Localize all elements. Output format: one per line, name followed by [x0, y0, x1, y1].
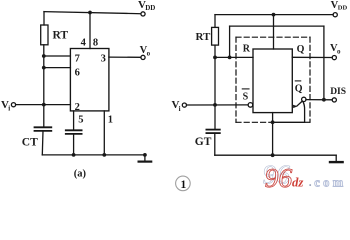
svg-text:DD: DD	[145, 4, 155, 12]
label V_DD (right)	[331, 0, 348, 12]
svg-text:1: 1	[181, 179, 187, 191]
svg-text:RT: RT	[196, 31, 212, 43]
svg-text:(a): (a)	[74, 168, 87, 179]
svg-text:DD: DD	[338, 5, 348, 12]
wire S-bar input	[187, 104, 249, 106]
svg-text:5: 5	[78, 114, 83, 125]
label V_DD (left)	[138, 0, 155, 12]
wire RT top lead	[43, 12, 45, 25]
wire left rail below RT	[43, 45, 45, 128]
wire switch hook to ground drop	[273, 101, 305, 122]
svg-text:i: i	[179, 105, 181, 113]
label V_i (left)	[1, 99, 10, 113]
node VDD drop junction	[272, 13, 276, 17]
svg-text:i: i	[8, 105, 10, 113]
wire VDD drop to box	[273, 15, 275, 49]
dashed 555 package boundary	[236, 37, 310, 122]
wire pin 6	[44, 67, 71, 69]
node pin1 to rail	[102, 153, 106, 157]
wire DIS	[306, 99, 332, 101]
terminal Vo (left)	[141, 55, 145, 59]
svg-text:DIS: DIS	[330, 87, 346, 97]
capacitor pin5 bypass	[66, 129, 82, 131]
IC U2 latch box (right)	[253, 49, 292, 113]
node feedback junction R	[228, 56, 232, 60]
wire CT bottom lead	[41, 131, 44, 155]
wire feedback right drop	[323, 26, 325, 100]
svg-text:4: 4	[81, 38, 87, 49]
node pin7 junction	[42, 54, 46, 58]
svg-text:6: 6	[75, 68, 80, 79]
node ground junction (left)	[143, 153, 147, 157]
node figure number circle 1	[176, 176, 191, 191]
wire bottom rail (right)	[215, 154, 336, 156]
node Vi2 junction	[213, 103, 217, 107]
svg-text:2: 2	[75, 102, 80, 113]
watermark 96dz.com	[263, 159, 347, 193]
wire R input	[215, 56, 253, 58]
node R branch junction	[213, 56, 217, 60]
svg-text:o: o	[147, 49, 151, 57]
terminal DIS	[332, 98, 336, 102]
wire GT bottom lead	[214, 133, 216, 155]
transistor switch blade	[297, 101, 302, 106]
node DIS feedback junction	[322, 98, 326, 102]
svg-text:o: o	[337, 47, 341, 55]
terminal VDD (right)	[333, 13, 337, 17]
svg-text:S: S	[243, 91, 249, 102]
svg-text:Q: Q	[295, 83, 303, 94]
label V_o (right)	[330, 43, 341, 56]
terminal Vo (right)	[332, 56, 336, 60]
label V_i (right)	[172, 99, 181, 113]
wire VDD rail (left circuit)	[44, 12, 141, 14]
resistor RT (left)	[41, 25, 48, 45]
capacitor GT (right)	[206, 129, 219, 131]
wire pin 2 input	[16, 104, 71, 106]
node S-bar inversion bubble	[248, 103, 253, 108]
wire pin 3 output	[109, 56, 141, 58]
node switch-ground junction	[271, 120, 275, 124]
wire box bottom to rail	[272, 113, 274, 156]
svg-text:96: 96	[265, 162, 293, 193]
svg-text:7: 7	[75, 54, 80, 65]
wire pin 1 lead	[103, 111, 105, 155]
terminal Vi (right)	[182, 103, 186, 107]
resistor RT (right)	[212, 27, 219, 45]
svg-text:Q: Q	[297, 44, 305, 55]
svg-text:GT: GT	[195, 136, 212, 148]
svg-text:CT: CT	[22, 137, 38, 149]
ground (left)	[144, 155, 146, 161]
wire feedback riser left	[229, 26, 231, 57]
capacitor CT (left)	[35, 126, 52, 128]
terminal Vi (left)	[11, 103, 15, 107]
node pin6 junction	[42, 66, 46, 70]
wire pin5 cap bottom lead	[73, 134, 75, 155]
wire pin 7	[44, 55, 71, 57]
svg-text:RT: RT	[53, 30, 69, 42]
IC U1 555 timer box (left)	[70, 49, 109, 111]
node pin5 cap to rail	[72, 153, 76, 157]
node box-bottom rail junction	[271, 153, 275, 157]
wire Q output	[292, 56, 332, 58]
wire VDD rail (right circuit)	[215, 14, 333, 16]
wire bottom rail (left)	[42, 154, 145, 156]
svg-text:R: R	[243, 43, 251, 54]
svg-text:dz: dz	[292, 176, 303, 190]
ground (right)	[335, 155, 337, 161]
svg-text:.: .	[309, 177, 312, 189]
node trigger junction	[42, 103, 46, 107]
svg-text:com: com	[314, 175, 346, 189]
svg-text:1: 1	[108, 114, 113, 125]
terminal VDD (left)	[141, 12, 145, 16]
svg-text:3: 3	[101, 54, 106, 65]
wire feedback top	[230, 25, 324, 27]
svg-text:8: 8	[93, 38, 98, 49]
node junction pin4/8 drop	[88, 11, 92, 15]
wire right rail below RT2	[214, 45, 216, 129]
label V_o (left)	[140, 45, 151, 58]
transistor discharge switch contact circle	[302, 97, 306, 101]
wire pin 5 lead	[73, 111, 75, 130]
transistor switch arrowhead	[293, 105, 298, 108]
wire pin4/8 drop	[89, 13, 91, 49]
wire RT2 top lead	[214, 15, 216, 28]
